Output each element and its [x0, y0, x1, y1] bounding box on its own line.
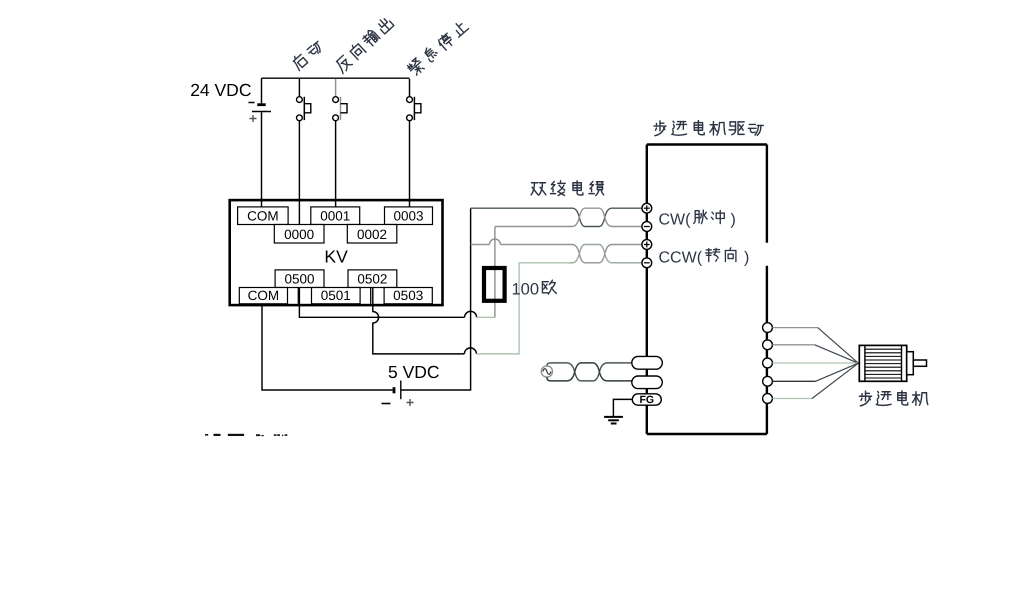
- svg-text:0500: 0500: [285, 272, 315, 287]
- wire CW- horizontal: [495, 226, 570, 228]
- terminal COM top: [238, 207, 289, 225]
- driver output terminal 4: [763, 376, 773, 386]
- pushbutton SW2 reverse: [333, 79, 347, 207]
- wire motor phase 5: [772, 363, 858, 398]
- pushbutton SW3 emergency stop: [407, 79, 421, 207]
- wire motor phase 4: [772, 363, 858, 381]
- terminal 0502: [348, 270, 397, 288]
- label 紧急停止 (emergency stop): [406, 19, 469, 77]
- svg-text:KV: KV: [324, 247, 348, 267]
- terminal 0001: [311, 207, 360, 225]
- label 步进电机 (stepper motor): [859, 391, 927, 406]
- svg-text:0003: 0003: [393, 209, 423, 224]
- terminal cell dividers: [298, 288, 370, 304]
- stepper driver box U2: [647, 145, 767, 435]
- label 双绞电缆 (twisted pair cable): [531, 181, 604, 196]
- svg-text:): ): [731, 212, 736, 229]
- terminal FG: [632, 394, 661, 405]
- wire 0502 inside box: [372, 288, 374, 306]
- resistor R1 100ohm: [484, 268, 505, 301]
- svg-text:COM: COM: [248, 288, 280, 303]
- svg-text:0503: 0503: [393, 288, 423, 303]
- PLC U1 KV box: [230, 200, 443, 305]
- terminal 0500: [275, 270, 324, 288]
- twisted pair CW: [570, 208, 642, 226]
- ground symbol: [604, 399, 632, 423]
- terminal 0503: [384, 288, 432, 304]
- svg-text:0000: 0000: [284, 227, 314, 242]
- wire motor phase 2: [772, 345, 858, 363]
- driver output terminal 1: [763, 323, 773, 333]
- terminal CW+: [642, 203, 652, 213]
- AC wires twisted: [547, 363, 566, 366]
- terminal 0002: [347, 225, 397, 244]
- wire into 0000: [298, 200, 300, 224]
- pushbutton SW1 start: [297, 79, 311, 225]
- wire motor phase 3: [772, 362, 858, 364]
- terminal stadium 1: [632, 356, 663, 369]
- driver output terminal 5: [763, 394, 773, 404]
- svg-text:COM: COM: [247, 209, 279, 224]
- svg-text:0001: 0001: [320, 209, 350, 224]
- svg-text:24 VDC: 24 VDC: [190, 80, 251, 100]
- wire into 0003: [409, 200, 411, 207]
- svg-text:CCW(: CCW(: [659, 250, 703, 267]
- label 启动 (start): [290, 38, 324, 71]
- wire 5VDC+ up to CW+: [401, 208, 471, 390]
- battery BT1 24VDC: [249, 78, 272, 207]
- wire 0500 to resistor (with hop at 470): [299, 305, 464, 317]
- svg-text:): ): [744, 250, 749, 267]
- label 反向输出 (reverse output): [333, 16, 394, 74]
- battery BT2 5VDC: [382, 381, 414, 407]
- clipped text fragment bottom-left: [205, 434, 208, 436]
- AC source V1: [541, 366, 552, 377]
- svg-text:0002: 0002: [357, 227, 387, 242]
- wire 0500 inside box: [298, 288, 300, 306]
- terminal stadium 2: [632, 376, 663, 389]
- wire COM to 5VDC battery: [262, 305, 393, 390]
- driver output terminal 3: [763, 358, 773, 368]
- wire CCW- horizontal: [519, 262, 569, 264]
- wire resistor vertical to CW-: [494, 227, 496, 318]
- wire top 24V bus: [262, 77, 410, 79]
- terminal CW-: [642, 222, 652, 232]
- wire motor phase 1: [772, 328, 858, 364]
- wire into 0001: [335, 200, 337, 207]
- svg-text:FG: FG: [640, 394, 655, 406]
- label 步进电机驱动 (stepper motor drive): [654, 121, 763, 136]
- motor M1 stepper: [859, 345, 926, 381]
- svg-text:0502: 0502: [357, 272, 387, 287]
- terminal 0003: [385, 207, 433, 225]
- svg-text:5 VDC: 5 VDC: [388, 362, 440, 382]
- terminal CCW+: [642, 240, 652, 250]
- terminal CCW-: [642, 258, 652, 268]
- wire CCW+ branch (hop over resistor wire): [471, 244, 490, 246]
- svg-text:0501: 0501: [321, 288, 351, 303]
- svg-text:100: 100: [512, 281, 540, 299]
- twisted pair CCW: [570, 245, 642, 263]
- svg-text:CW(: CW(: [659, 212, 692, 229]
- terminal 0501: [312, 288, 361, 304]
- terminal 0000: [274, 225, 324, 244]
- wire into COM top: [261, 200, 263, 207]
- wire 0502 (vertical hops over 0500 wire): [373, 305, 465, 354]
- terminal COM bottom: [239, 288, 287, 304]
- wire CW+ horizontal: [471, 207, 570, 209]
- driver output terminal 2: [763, 340, 773, 350]
